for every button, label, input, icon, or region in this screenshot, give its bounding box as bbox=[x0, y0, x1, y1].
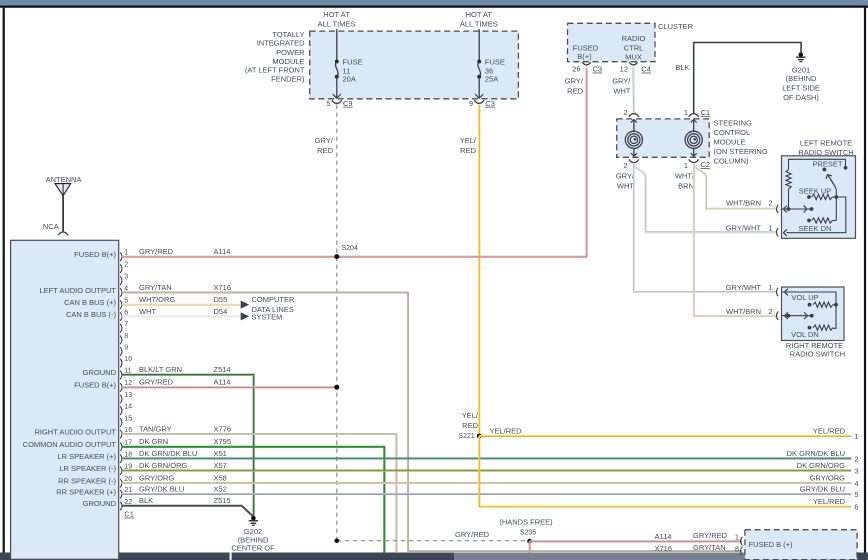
right edge pin 3 label bbox=[797, 461, 859, 476]
svg-text:S221: S221 bbox=[458, 433, 474, 440]
svg-text:GRY/DK BLU: GRY/DK BLU bbox=[800, 484, 845, 493]
svg-text:X51: X51 bbox=[214, 449, 227, 458]
page frame left border bbox=[3, 8, 5, 554]
svg-text:18: 18 bbox=[124, 452, 132, 459]
svg-text:DK GRN/ORG: DK GRN/ORG bbox=[139, 461, 188, 470]
svg-text:GRY/: GRY/ bbox=[315, 136, 334, 145]
svg-text:COLUMN): COLUMN) bbox=[714, 157, 750, 166]
pin 1 label (vol up) bbox=[768, 283, 772, 292]
C9 label bbox=[343, 99, 353, 108]
radio pin 20 bbox=[58, 473, 227, 487]
fuse 36 label bbox=[485, 58, 505, 84]
svg-text:S204: S204 bbox=[342, 245, 358, 252]
svg-text:1: 1 bbox=[735, 533, 739, 542]
svg-text:14: 14 bbox=[124, 404, 132, 411]
svg-text:VOL UP: VOL UP bbox=[791, 293, 818, 302]
left remote radio switch title bbox=[798, 139, 853, 158]
BLK label bbox=[675, 63, 689, 72]
wire A114 GRY/RED dashed vertical from C9 bbox=[336, 105, 338, 541]
ground G201 bbox=[796, 52, 805, 61]
svg-text:GRY/TAN: GRY/TAN bbox=[693, 543, 726, 552]
svg-text:LR SPEAKER (+): LR SPEAKER (+) bbox=[57, 452, 116, 461]
svg-text:CENTER OF: CENTER OF bbox=[231, 544, 275, 553]
svg-text:X716: X716 bbox=[214, 283, 232, 292]
svg-text:26: 26 bbox=[572, 65, 580, 74]
radio pin 13 bbox=[120, 392, 132, 403]
connector C3 (cluster) bbox=[582, 62, 590, 65]
svg-text:DK GRN/DK BLU: DK GRN/DK BLU bbox=[139, 449, 197, 458]
svg-text:C2: C2 bbox=[701, 160, 711, 169]
svg-text:YEL/RED: YEL/RED bbox=[813, 497, 846, 506]
svg-text:ANTENNA: ANTENNA bbox=[46, 175, 82, 184]
svg-text:CONTROL: CONTROL bbox=[714, 128, 751, 137]
vol up resistor bbox=[808, 302, 838, 307]
connector bracket hands free pin1 bbox=[741, 537, 743, 546]
svg-text:RED: RED bbox=[567, 87, 583, 96]
vol input wiring pin1 bbox=[782, 289, 837, 329]
svg-text:D54: D54 bbox=[214, 307, 228, 316]
svg-text:X57: X57 bbox=[214, 461, 227, 470]
radio pin 7 bbox=[120, 321, 128, 332]
svg-text:INTEGRATED: INTEGRATED bbox=[257, 39, 305, 48]
svg-text:D55: D55 bbox=[214, 295, 228, 304]
pin 2 bottom label bbox=[623, 161, 627, 170]
svg-text:MODULE: MODULE bbox=[272, 57, 304, 66]
svg-text:S235: S235 bbox=[520, 530, 536, 537]
svg-text:BLK: BLK bbox=[139, 496, 153, 505]
radio pin 6 bbox=[66, 307, 227, 321]
svg-text:TOTALLY: TOTALLY bbox=[272, 30, 304, 39]
HOT AT ALL TIMES label (fuse 36) bbox=[460, 10, 498, 29]
svg-text:5: 5 bbox=[326, 99, 330, 108]
pin 9 label bbox=[469, 99, 473, 108]
wire GRY/WHT cluster C4 down to steering module bbox=[633, 68, 634, 115]
radio pin 16 bbox=[34, 424, 231, 438]
svg-text:GRY/TAN: GRY/TAN bbox=[139, 283, 172, 292]
connector C2 cup pin1 bbox=[689, 159, 699, 162]
connector C3 (TIPM) bbox=[474, 100, 484, 103]
svg-text:8: 8 bbox=[124, 333, 128, 340]
svg-text:12: 12 bbox=[620, 65, 628, 74]
wire row1 GRY/RED A114 radio pin1 to cluster bbox=[122, 256, 587, 259]
wire row16 TAN/GRY X776 down off page bbox=[122, 434, 397, 553]
bottom scrollbar track bbox=[0, 553, 868, 560]
svg-text:GROUND: GROUND bbox=[83, 499, 117, 508]
svg-text:LR SPEAKER (-): LR SPEAKER (-) bbox=[59, 464, 116, 473]
svg-text:WHT/ORG: WHT/ORG bbox=[139, 295, 175, 304]
SEEK UP label bbox=[799, 187, 832, 196]
X716 label bottom bbox=[655, 544, 673, 553]
right remote radio switch box bbox=[782, 287, 845, 341]
svg-text:(HANDS FREE): (HANDS FREE) bbox=[499, 518, 553, 527]
C1 module label bbox=[701, 108, 711, 117]
pin 1 top label bbox=[684, 108, 688, 117]
svg-text:C3: C3 bbox=[593, 65, 603, 74]
steering module label bbox=[714, 119, 768, 166]
svg-text:1: 1 bbox=[684, 108, 688, 117]
svg-text:FUSED B(+): FUSED B(+) bbox=[74, 250, 116, 259]
svg-text:GRY/RED: GRY/RED bbox=[139, 247, 174, 256]
wire row20 GRY/ORG X58 to right pin4 bbox=[122, 482, 852, 485]
wire GRY/RED cluster C3 down to radio row1 bbox=[586, 68, 589, 258]
svg-text:BRN: BRN bbox=[678, 182, 694, 191]
svg-text:CAN B BUS (+): CAN B BUS (+) bbox=[64, 298, 116, 307]
coil 2 (clockspring right) bbox=[685, 119, 702, 157]
svg-text:RR SPEAKER (-): RR SPEAKER (-) bbox=[58, 476, 116, 485]
svg-text:X795: X795 bbox=[214, 437, 232, 446]
svg-text:FUSED: FUSED bbox=[573, 43, 599, 52]
svg-text:10: 10 bbox=[124, 356, 132, 363]
svg-text:A114: A114 bbox=[214, 247, 231, 256]
svg-text:1: 1 bbox=[124, 250, 128, 257]
svg-text:LEFT SIDE: LEFT SIDE bbox=[782, 84, 820, 93]
right edge pin 2 label bbox=[787, 449, 859, 464]
svg-text:FUSE: FUSE bbox=[485, 58, 505, 67]
svg-text:POWER: POWER bbox=[276, 48, 305, 57]
svg-text:COMPUTER: COMPUTER bbox=[252, 295, 296, 304]
right edge pin 5 label bbox=[800, 484, 859, 499]
A114 label bottom bbox=[655, 532, 672, 541]
radio pin 1 bbox=[74, 247, 230, 261]
svg-text:(BEHIND: (BEHIND bbox=[786, 74, 817, 83]
svg-text:C1: C1 bbox=[124, 510, 134, 519]
svg-text:COMMON AUDIO OUTPUT: COMMON AUDIO OUTPUT bbox=[23, 440, 117, 449]
svg-text:5: 5 bbox=[854, 490, 858, 499]
svg-text:YEL/: YEL/ bbox=[462, 411, 479, 420]
radio pin 5 bbox=[64, 295, 227, 309]
svg-text:CLUSTER: CLUSTER bbox=[658, 22, 694, 31]
svg-text:SEEK DN: SEEK DN bbox=[799, 224, 832, 233]
svg-text:YEL/: YEL/ bbox=[460, 136, 477, 145]
svg-text:YEL/RED: YEL/RED bbox=[490, 426, 523, 435]
wire row12 GRY/RED A114 to S204 branch bbox=[122, 386, 337, 389]
connector bracket pin1 right switch bbox=[776, 288, 778, 297]
pin 1 label (seek dn) bbox=[768, 223, 772, 232]
seek up resistor bbox=[807, 194, 838, 199]
wire row17 DK GRN X795 down off page bbox=[122, 447, 385, 553]
radio pin 11 bbox=[83, 365, 231, 379]
pin 1 hands free label bbox=[735, 533, 739, 542]
wire GRY/WHT module pin2 to SEEK DN bbox=[634, 164, 778, 233]
radio pin 19 bbox=[59, 461, 227, 475]
svg-text:RED: RED bbox=[317, 146, 333, 155]
radio pin 12 bbox=[74, 378, 230, 392]
svg-text:DK GRN/ORG: DK GRN/ORG bbox=[797, 461, 846, 470]
svg-text:TAN/GRY: TAN/GRY bbox=[139, 424, 172, 433]
steering control module box bbox=[617, 119, 710, 157]
svg-text:STEERING: STEERING bbox=[714, 119, 753, 128]
pin 26 label bbox=[572, 65, 580, 74]
svg-text:X52: X52 bbox=[214, 484, 227, 493]
wire row11 BLK/LT GRN Z514 to G202 bbox=[122, 375, 254, 516]
pin 1 bottom label bbox=[684, 161, 688, 170]
svg-text:C9: C9 bbox=[343, 99, 353, 108]
C4 label bbox=[641, 65, 651, 74]
svg-text:WHT: WHT bbox=[617, 182, 634, 191]
svg-text:C4: C4 bbox=[641, 65, 651, 74]
svg-text:DK GRN: DK GRN bbox=[139, 437, 168, 446]
vol dn resistor bbox=[808, 325, 833, 330]
connector bracket hands free pin8 bbox=[741, 547, 743, 556]
radio connector C1 label bbox=[124, 510, 134, 519]
COMPUTER DATA LINES SYSTEM label bbox=[252, 295, 296, 322]
fuse 11 20A bbox=[335, 60, 339, 79]
svg-text:B(+): B(+) bbox=[577, 52, 592, 61]
right edge pin 6 label bbox=[813, 497, 859, 512]
svg-text:1: 1 bbox=[854, 432, 858, 441]
computer data lines arrow D55 bbox=[241, 301, 250, 309]
svg-text:2: 2 bbox=[768, 199, 772, 208]
radio pin 15 bbox=[120, 415, 132, 426]
WHT/BRN label below module bbox=[675, 172, 695, 191]
svg-text:CTRL: CTRL bbox=[624, 43, 644, 52]
wire YEL/RED from C3 down to S221 bbox=[478, 105, 481, 437]
FUSED B (+) hands free label bbox=[749, 540, 793, 549]
GRY/TAN label bottom right bbox=[693, 543, 726, 552]
preset switch wiring top loop bbox=[789, 159, 848, 169]
svg-text:25A: 25A bbox=[485, 75, 498, 84]
bottom scrollbar divider bbox=[230, 553, 232, 560]
radio pin 3 bbox=[120, 274, 128, 285]
svg-text:GRY/: GRY/ bbox=[612, 77, 631, 86]
svg-text:WHT/BRN: WHT/BRN bbox=[726, 307, 761, 316]
radio pin 18 bbox=[57, 449, 226, 463]
HOT AT ALL TIMES label (fuse 11) bbox=[318, 10, 356, 29]
radio pin 14 bbox=[120, 404, 132, 415]
svg-text:9: 9 bbox=[124, 344, 128, 351]
pin 12 label bbox=[620, 65, 628, 74]
svg-text:WHT/: WHT/ bbox=[675, 172, 695, 181]
node S235 bbox=[520, 530, 536, 544]
pin 5 label bbox=[326, 99, 330, 108]
svg-text:3: 3 bbox=[854, 467, 858, 476]
connector C2 cup pin2 bbox=[629, 159, 639, 162]
svg-text:FUSE: FUSE bbox=[343, 58, 363, 67]
svg-text:17: 17 bbox=[124, 440, 132, 447]
radio pin 2 bbox=[120, 262, 128, 273]
svg-text:FUSED B (+): FUSED B (+) bbox=[749, 540, 793, 549]
svg-text:BLK/LT GRN: BLK/LT GRN bbox=[139, 365, 182, 374]
svg-text:RR SPEAKER (+): RR SPEAKER (+) bbox=[56, 487, 116, 496]
svg-text:HOT AT: HOT AT bbox=[323, 10, 350, 19]
wire YEL/RED S221 to right pin1 bbox=[479, 435, 851, 438]
svg-text:11: 11 bbox=[124, 368, 131, 375]
svg-text:SYSTEM: SYSTEM bbox=[252, 313, 283, 322]
svg-text:1: 1 bbox=[768, 223, 772, 232]
svg-text:Z515: Z515 bbox=[214, 496, 231, 505]
svg-text:20A: 20A bbox=[343, 75, 356, 84]
YEL/RED label after S221 bbox=[490, 426, 523, 435]
wire GRY/RED S235 down off page bbox=[529, 541, 532, 553]
wire GRY/WHT module pin2 to VOL UP bbox=[634, 164, 778, 293]
wire A114 dashed horizontal to S235 bbox=[335, 538, 530, 543]
svg-text:2: 2 bbox=[854, 455, 858, 464]
svg-text:GRY/RED: GRY/RED bbox=[693, 531, 728, 540]
svg-text:4: 4 bbox=[854, 479, 858, 488]
left remote radio switch box bbox=[782, 156, 856, 239]
VOL DN label bbox=[791, 330, 819, 339]
radio pin 17 bbox=[23, 437, 231, 451]
svg-text:WHT: WHT bbox=[139, 307, 156, 316]
pin 8 hands free label bbox=[735, 545, 739, 554]
svg-text:GRY/: GRY/ bbox=[616, 172, 635, 181]
C2 module label bbox=[701, 160, 711, 169]
svg-text:20: 20 bbox=[124, 476, 132, 483]
connector C1 cap pin2 bbox=[629, 114, 639, 117]
svg-text:GROUND: GROUND bbox=[83, 368, 117, 377]
svg-text:6: 6 bbox=[124, 309, 128, 316]
WHT/BRN label (vol dn) bbox=[726, 307, 761, 316]
ANTENNA label bbox=[46, 175, 82, 184]
fuse 36 25A bbox=[477, 60, 481, 79]
svg-text:VOL DN: VOL DN bbox=[791, 330, 819, 339]
computer data lines arrow D54 bbox=[241, 312, 250, 320]
radio box bbox=[11, 240, 119, 559]
svg-text:DK GRN/DK BLU: DK GRN/DK BLU bbox=[787, 449, 845, 458]
YEL/RED label below C3 bbox=[460, 136, 477, 155]
svg-text:ALL TIMES: ALL TIMES bbox=[460, 19, 498, 28]
connector bracket pin2 left switch bbox=[776, 205, 778, 214]
fuse 11 label bbox=[343, 58, 363, 84]
radio pin 10 bbox=[120, 356, 132, 367]
GRY/WHT label below module bbox=[616, 172, 635, 191]
svg-text:22: 22 bbox=[124, 499, 132, 506]
svg-text:A114: A114 bbox=[655, 532, 672, 541]
cluster box bbox=[568, 23, 656, 61]
YEL/RED label above S221 bbox=[462, 411, 479, 430]
HANDS FREE label bbox=[499, 518, 553, 527]
svg-text:FENDER): FENDER) bbox=[271, 75, 305, 84]
svg-text:2: 2 bbox=[623, 108, 627, 117]
svg-text:(ON STEERING: (ON STEERING bbox=[714, 147, 768, 156]
svg-text:19: 19 bbox=[124, 464, 132, 471]
GRY/RED label bottom right bbox=[693, 531, 728, 540]
vol common input wiring pin2 bbox=[782, 312, 814, 319]
pin 2 label (seek up) bbox=[768, 199, 772, 208]
radio pin 9 bbox=[120, 344, 128, 355]
svg-text:LEFT AUDIO OUTPUT: LEFT AUDIO OUTPUT bbox=[39, 286, 116, 295]
svg-text:GRY/: GRY/ bbox=[565, 77, 584, 86]
svg-text:12: 12 bbox=[124, 380, 132, 387]
page frame top bar bbox=[0, 0, 868, 7]
wire BLK steering module pin1 to G201 bbox=[694, 43, 801, 114]
svg-text:GRY/ORG: GRY/ORG bbox=[810, 473, 845, 482]
radio pin 8 bbox=[120, 333, 128, 344]
connector bracket pin1 left switch bbox=[776, 228, 778, 237]
svg-text:MUX: MUX bbox=[625, 53, 642, 62]
GRY/RED label below cluster bbox=[565, 77, 584, 96]
svg-text:RADIO: RADIO bbox=[622, 34, 646, 43]
VOL UP label bbox=[791, 293, 818, 302]
wire row6 WHT D54 to data link bbox=[122, 315, 241, 318]
GRY/WHT label (vol up) bbox=[726, 283, 762, 292]
wire WHT/BRN module pin1 to VOL DN bbox=[694, 164, 778, 316]
svg-text:A114: A114 bbox=[214, 378, 231, 387]
svg-text:C1: C1 bbox=[701, 108, 711, 117]
TIPM label bbox=[245, 30, 305, 84]
page frame right border bbox=[864, 8, 866, 554]
wire WHT/BRN module pin1 to SEEK UP bbox=[694, 164, 778, 209]
svg-text:OF DASH): OF DASH) bbox=[783, 93, 819, 102]
G201 label bbox=[782, 66, 820, 103]
wire hot feed into fuse 36 bbox=[478, 29, 480, 62]
wire row19 DK GRN/ORG X57 to right pin3 bbox=[122, 470, 852, 473]
right edge pin 4 label bbox=[810, 473, 859, 488]
GRY/WHT label (seek dn) bbox=[726, 223, 762, 232]
svg-text:1: 1 bbox=[684, 161, 688, 170]
connector bracket pin2 right switch bbox=[776, 311, 778, 320]
seek dn resistor bbox=[807, 197, 836, 223]
antenna symbol bbox=[55, 184, 71, 232]
GRY/WHT label below cluster bbox=[612, 77, 631, 96]
svg-text:BLK: BLK bbox=[675, 63, 689, 72]
svg-text:15: 15 bbox=[124, 415, 132, 422]
wire fuse 11 to connector C9 bbox=[333, 77, 341, 99]
svg-text:Z514: Z514 bbox=[214, 365, 231, 374]
svg-text:NCA: NCA bbox=[43, 222, 59, 231]
wire row22 BLK Z515 to G202 bbox=[122, 506, 253, 517]
svg-text:FUSED B(+): FUSED B(+) bbox=[74, 381, 116, 390]
svg-text:GRY/WHT: GRY/WHT bbox=[726, 283, 762, 292]
wire row5 WHT/ORG D55 to data link bbox=[122, 304, 241, 307]
svg-text:G201: G201 bbox=[792, 66, 810, 75]
svg-text:GRY/DK BLU: GRY/DK BLU bbox=[139, 484, 184, 493]
pin 2 top label bbox=[623, 108, 627, 117]
svg-text:RED: RED bbox=[460, 146, 476, 155]
SEEK DN label bbox=[799, 224, 832, 233]
svg-text:(AT LEFT FRONT: (AT LEFT FRONT bbox=[245, 66, 305, 75]
svg-text:X716: X716 bbox=[655, 544, 673, 553]
svg-text:5: 5 bbox=[124, 298, 128, 305]
svg-text:RIGHT AUDIO OUTPUT: RIGHT AUDIO OUTPUT bbox=[34, 427, 116, 436]
svg-text:MODULE: MODULE bbox=[714, 138, 746, 147]
ground G202 bbox=[249, 516, 258, 525]
svg-text:C3: C3 bbox=[485, 99, 495, 108]
svg-text:ALL TIMES: ALL TIMES bbox=[318, 19, 356, 28]
svg-text:WHT: WHT bbox=[613, 87, 630, 96]
wire YEL/RED S221 down to right pin6 bbox=[479, 436, 851, 507]
WHT/BRN label (seek up) bbox=[726, 199, 761, 208]
wire GRY/RED A114 S235 to hands free module pin1 bbox=[530, 540, 743, 543]
svg-text:LEFT REMOTE: LEFT REMOTE bbox=[800, 139, 852, 148]
seek output wiring bbox=[784, 197, 846, 236]
coil 1 (clockspring left) bbox=[625, 119, 642, 157]
svg-text:13: 13 bbox=[124, 392, 132, 399]
svg-text:9: 9 bbox=[469, 99, 473, 108]
svg-text:GRY/ORG: GRY/ORG bbox=[139, 473, 174, 482]
GRY/RED label bottom bbox=[455, 530, 490, 539]
svg-text:GRY/RED: GRY/RED bbox=[139, 378, 174, 387]
svg-text:8: 8 bbox=[735, 545, 739, 554]
C3 label bbox=[485, 99, 495, 108]
svg-text:WHT/BRN: WHT/BRN bbox=[726, 199, 761, 208]
svg-text:7: 7 bbox=[124, 321, 128, 328]
junction row12 on A114 bbox=[334, 385, 339, 390]
svg-text:YEL/RED: YEL/RED bbox=[813, 426, 846, 435]
GRY/RED label below C9 bbox=[315, 136, 334, 155]
NCA label bbox=[43, 222, 59, 231]
preset switch arm bbox=[823, 168, 837, 197]
svg-text:2: 2 bbox=[768, 307, 772, 316]
radio pin 21 bbox=[56, 484, 227, 498]
svg-text:1: 1 bbox=[768, 283, 772, 292]
wire hot feed into fuse 11 bbox=[336, 29, 338, 62]
pin 2 label (vol dn) bbox=[768, 307, 772, 316]
hands free module box bbox=[745, 530, 857, 560]
svg-text:6: 6 bbox=[854, 503, 858, 512]
connector C9 bbox=[332, 100, 342, 103]
C3 cluster label bbox=[593, 65, 603, 74]
